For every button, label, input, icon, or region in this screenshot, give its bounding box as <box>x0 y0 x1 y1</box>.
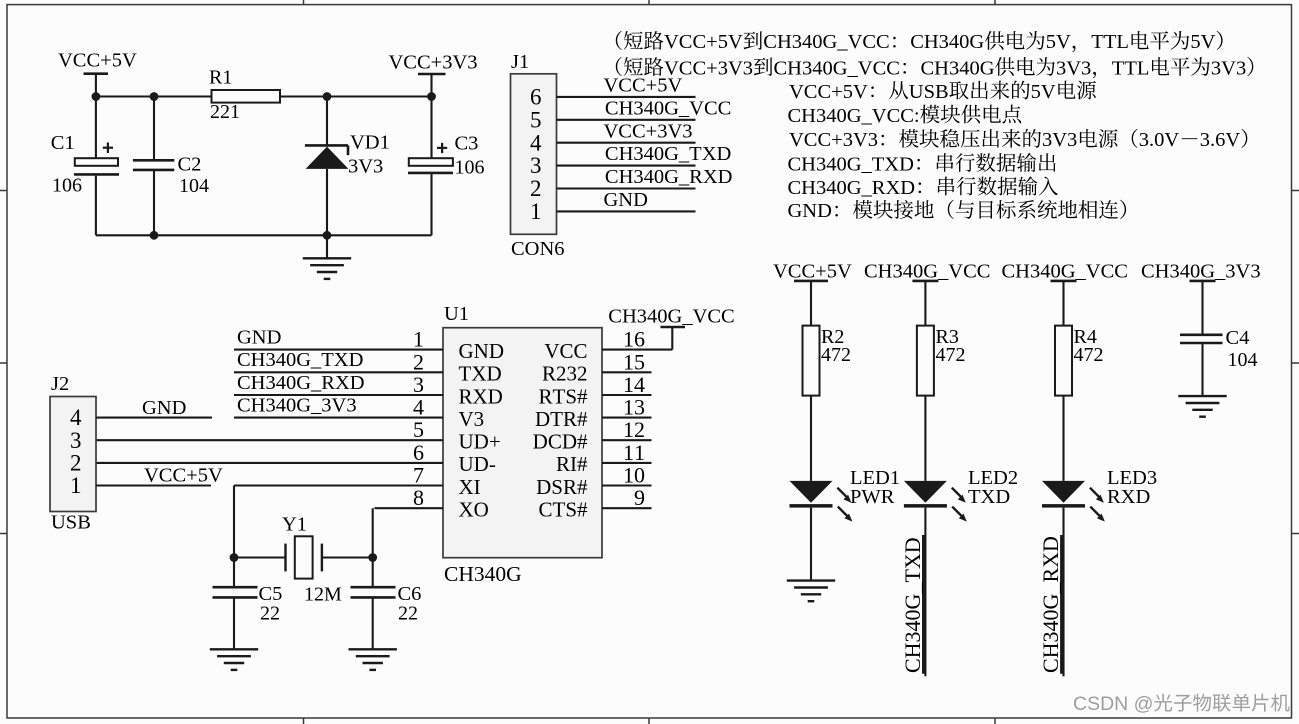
svg-text:GND: GND <box>142 397 186 419</box>
capacitor C6 22 <box>372 558 374 588</box>
svg-text:RTS#: RTS# <box>538 384 588 408</box>
svg-text:9: 9 <box>634 485 645 510</box>
svg-text:USB: USB <box>909 81 949 103</box>
svg-text:CH340G_VCC: CH340G_VCC <box>774 57 900 79</box>
svg-text:XO: XO <box>459 498 489 522</box>
svg-text:106: 106 <box>455 157 485 179</box>
svg-text:VCC: VCC <box>544 339 587 363</box>
ground below LED1 <box>787 581 835 602</box>
svg-text:3: 3 <box>70 428 82 453</box>
U1 left pin numbers 1-8 <box>413 327 424 511</box>
ground below C5 <box>210 649 258 670</box>
svg-text:CH340G_RXD: CH340G_RXD <box>1038 536 1063 673</box>
svg-text:VD1: VD1 <box>350 132 390 154</box>
wire top rail left of R1 <box>96 95 212 97</box>
U1 left pin labels <box>459 339 505 522</box>
svg-text:GND: GND <box>604 189 648 211</box>
svg-text:C3: C3 <box>455 132 479 154</box>
svg-text:4: 4 <box>530 130 542 155</box>
wire J1 pin 3 net CH340G_TXD <box>557 165 696 167</box>
wire J1 pin 6 net VCC+5V <box>557 96 696 98</box>
svg-text:CH340G_VCC: CH340G_VCC <box>763 31 889 53</box>
crystal Y1 12M <box>233 486 235 558</box>
svg-text:22: 22 <box>398 602 418 624</box>
svg-text:CSDN @: CSDN @ <box>1073 693 1153 715</box>
capacitor C4 104 <box>1201 281 1203 335</box>
ground (below VD1) <box>326 235 328 258</box>
svg-text:5V: 5V <box>1031 81 1056 103</box>
svg-text:15: 15 <box>623 349 645 374</box>
svg-text:2: 2 <box>530 176 542 201</box>
svg-text:VCC+5V: VCC+5V <box>664 31 743 53</box>
svg-text:11: 11 <box>623 440 645 465</box>
svg-text:CH340G_TXD: CH340G_TXD <box>900 537 925 673</box>
wire J1 pin 1 net GND <box>557 210 696 212</box>
svg-text:VCC+5V: VCC+5V <box>144 465 223 487</box>
svg-text:2: 2 <box>413 349 424 374</box>
svg-text:XI: XI <box>459 475 481 499</box>
svg-text:3.0V: 3.0V <box>1139 129 1180 151</box>
capacitor C1 (polarized) <box>95 97 97 159</box>
capacitor C3 (polarized) <box>430 97 432 159</box>
svg-text:GND: GND <box>237 326 281 348</box>
svg-text:VCC+3V3: VCC+3V3 <box>664 57 753 79</box>
svg-text:C1: C1 <box>51 132 75 154</box>
capacitor C5 22 <box>233 558 235 588</box>
svg-text:C2: C2 <box>178 154 202 176</box>
svg-text:5V: 5V <box>1046 31 1071 53</box>
svg-text:DCD#: DCD# <box>533 430 588 454</box>
svg-text:472: 472 <box>821 344 851 366</box>
svg-text:RI#: RI# <box>556 452 588 476</box>
svg-text:CH340G_VCC: CH340G_VCC <box>605 97 731 119</box>
svg-text:CH340G_VCC: CH340G_VCC <box>864 261 990 283</box>
svg-text:5V: 5V <box>1190 31 1215 53</box>
svg-text:CH340G_TXD: CH340G_TXD <box>237 349 363 371</box>
svg-text:RXD: RXD <box>1107 486 1150 508</box>
svg-text:TXD: TXD <box>968 486 1010 508</box>
svg-text:V3: V3 <box>459 407 485 431</box>
svg-text:472: 472 <box>1074 344 1104 366</box>
node dots on top rail <box>92 92 101 101</box>
svg-text:8: 8 <box>413 485 424 510</box>
svg-text:J2: J2 <box>51 373 69 395</box>
svg-text:R1: R1 <box>209 67 232 89</box>
wire U1 pin2 CH340G_TXD <box>234 371 443 373</box>
svg-text:22: 22 <box>260 602 280 624</box>
svg-text:VCC+5V: VCC+5V <box>789 81 868 103</box>
wire bottom rail <box>96 234 432 236</box>
wire U1 pin8 XO <box>375 507 444 509</box>
svg-text:CH340G_TXD: CH340G_TXD <box>788 153 914 175</box>
svg-text:472: 472 <box>936 344 966 366</box>
svg-text:5: 5 <box>413 417 424 442</box>
svg-text:106: 106 <box>52 174 82 196</box>
ground below C6 <box>349 649 397 670</box>
wire VCC+5V stub <box>95 74 97 97</box>
svg-text:4: 4 <box>70 405 82 430</box>
svg-text:3V3: 3V3 <box>1056 57 1091 79</box>
ground below C4 <box>1178 396 1226 417</box>
svg-text:1: 1 <box>413 327 424 352</box>
svg-text:16: 16 <box>623 327 645 352</box>
svg-text:CH340G: CH340G <box>910 31 984 53</box>
svg-text:12: 12 <box>623 417 645 442</box>
LED3 RXD <box>1042 481 1105 522</box>
svg-text:3V3: 3V3 <box>1042 129 1077 151</box>
wire U1 pin5 from J2 pin3 <box>96 439 443 441</box>
svg-text:4: 4 <box>413 395 424 420</box>
zener diode VD1 3V3 <box>326 97 328 147</box>
svg-text:CH340G: CH340G <box>444 562 522 586</box>
svg-text:5: 5 <box>530 107 542 132</box>
svg-text:DTR#: DTR# <box>535 407 588 431</box>
svg-text:R232: R232 <box>542 362 588 386</box>
svg-text:3V3: 3V3 <box>1211 57 1246 79</box>
svg-text:VCC+5V: VCC+5V <box>773 261 852 283</box>
svg-text:UD-: UD- <box>459 452 496 476</box>
svg-text:3.6V: 3.6V <box>1200 129 1241 151</box>
svg-text:1: 1 <box>530 199 542 224</box>
svg-text:TXD: TXD <box>459 362 502 386</box>
wire U1 pin6 from J2 pin2 <box>96 462 443 464</box>
U1 right pin labels <box>533 339 588 522</box>
svg-text:3: 3 <box>530 153 542 178</box>
svg-text:TTL: TTL <box>1112 57 1150 79</box>
svg-text:6: 6 <box>413 440 424 465</box>
svg-text:CH340G_VCC: CH340G_VCC <box>608 305 734 327</box>
capacitor C2 <box>153 97 155 161</box>
svg-text:12M: 12M <box>304 584 342 606</box>
resistor R3 472 <box>924 281 926 326</box>
svg-text:CH340G: CH340G <box>921 57 995 79</box>
svg-text:GND: GND <box>788 200 832 222</box>
svg-text:CH340G_3V3: CH340G_3V3 <box>1141 261 1261 283</box>
svg-text:VCC+3V3: VCC+3V3 <box>789 129 878 151</box>
svg-text:104: 104 <box>179 175 209 197</box>
svg-text:CH340G_RXD: CH340G_RXD <box>605 166 733 188</box>
wire J2 pin1 VCC+5V stub <box>96 484 211 486</box>
svg-text:CH340G_RXD: CH340G_RXD <box>237 372 365 394</box>
resistor R1 <box>212 90 281 103</box>
svg-text:U1: U1 <box>444 303 469 325</box>
svg-text:USB: USB <box>51 511 91 533</box>
svg-text:TTL: TTL <box>1091 31 1129 53</box>
svg-text:CH340G_VCC: CH340G_VCC <box>1002 261 1128 283</box>
wire U1 pin3 CH340G_RXD <box>234 394 443 396</box>
svg-text:CH340G_VCC:: CH340G_VCC: <box>788 105 920 127</box>
svg-text:104: 104 <box>1228 349 1258 371</box>
resistor R4 472 <box>1062 281 1064 326</box>
wire J1 pin 4 net VCC+3V3 <box>557 142 696 144</box>
svg-text:14: 14 <box>623 372 645 397</box>
svg-text:1: 1 <box>70 473 82 498</box>
svg-text:CH340G_3V3: CH340G_3V3 <box>237 394 357 416</box>
svg-text:6: 6 <box>530 85 542 110</box>
svg-text:PWR: PWR <box>850 486 895 508</box>
svg-text:2: 2 <box>70 451 82 476</box>
wire LED3 to net CH340G_RXD <box>1062 508 1064 677</box>
svg-text:VCC+3V3: VCC+3V3 <box>389 52 478 74</box>
svg-text:3V3: 3V3 <box>348 156 383 178</box>
svg-text:GND: GND <box>459 339 505 363</box>
svg-text:J1: J1 <box>511 51 529 73</box>
resistor R2 472 <box>810 281 812 326</box>
wire U1 pin16 to CH340G_VCC flag <box>602 349 672 351</box>
svg-text:10: 10 <box>623 463 645 488</box>
svg-text:3: 3 <box>413 372 424 397</box>
wire top rail right of R1 <box>280 95 432 97</box>
svg-text:C4: C4 <box>1226 327 1250 349</box>
svg-text:UD+: UD+ <box>459 430 501 454</box>
LED2 TXD <box>904 481 967 522</box>
svg-text:7: 7 <box>413 463 424 488</box>
svg-text:VCC+5V: VCC+5V <box>58 50 137 72</box>
svg-text:CON6: CON6 <box>511 238 565 260</box>
wire U1 pin4 CH340G_3V3 <box>234 417 443 419</box>
svg-text:RXD: RXD <box>459 384 503 408</box>
wire J2 pin4 GND stub <box>96 417 212 419</box>
svg-text:VCC+3V3: VCC+3V3 <box>604 120 693 142</box>
wires U1 pins 15-9 <box>602 372 652 508</box>
svg-text:CH340G_RXD: CH340G_RXD <box>788 177 916 199</box>
U1 right pin numbers 16-9 <box>623 327 645 511</box>
svg-text:Y1: Y1 <box>282 514 307 536</box>
svg-text:CH340G_TXD: CH340G_TXD <box>605 143 731 165</box>
svg-text:13: 13 <box>623 395 645 420</box>
LED1 PWR <box>790 481 853 522</box>
wire LED2 to net CH340G_TXD <box>924 508 926 677</box>
wire U1 pin1 GND <box>234 349 443 351</box>
svg-text:CTS#: CTS# <box>538 498 588 522</box>
svg-text:DSR#: DSR# <box>536 475 588 499</box>
svg-text:221: 221 <box>210 101 240 123</box>
wire U1 pin7 XI <box>234 484 443 486</box>
wire J1 pin 5 net CH340G_VCC <box>557 119 696 121</box>
wire J1 pin 2 net CH340G_RXD <box>557 187 696 189</box>
